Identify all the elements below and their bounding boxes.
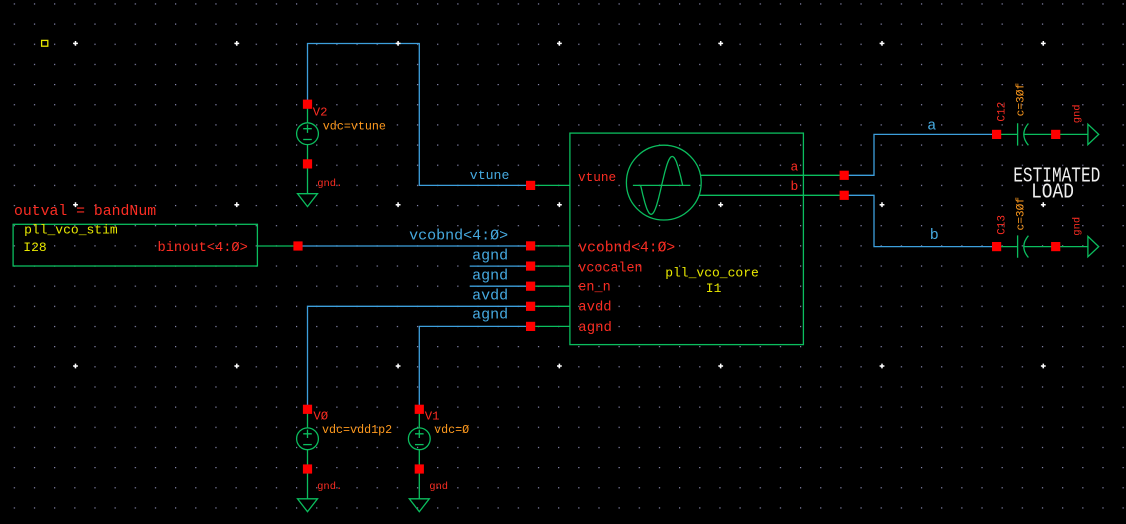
vco symbol circle with sine wave (I1): [626, 145, 701, 220]
pin stub a (I1): [701, 174, 840, 176]
svg-text:V1: V1: [425, 409, 440, 423]
svg-text:pll_vco_stim: pll_vco_stim: [24, 223, 118, 238]
capacitor C12: wiring and plates: [997, 123, 1088, 145]
pin square V2 plus: [303, 100, 312, 109]
ground symbol (C12 load): [1088, 124, 1099, 144]
svg-text:en_n: en_n: [578, 281, 610, 296]
svg-text:a: a: [927, 117, 936, 134]
wire net agnd stub (en_n pin): [470, 285, 531, 287]
instance pll_vco_stim I28: body: [13, 224, 293, 266]
wire net b (core to C13): [844, 195, 996, 246]
capacitor C13: wiring and plates: [997, 235, 1088, 257]
pin stub vcobnd<4:0> (I1): [535, 245, 570, 247]
pin square agnd (I1): [526, 322, 535, 331]
ground symbol (V0): [298, 499, 318, 512]
ground symbol (V2): [298, 194, 318, 207]
wire net agnd (V1 to core): [419, 326, 530, 409]
pin stub vtune (I1): [535, 184, 570, 186]
pin stub b (I1): [699, 194, 840, 196]
svg-text:agnd: agnd: [472, 248, 508, 265]
pin stub avdd (I1): [535, 305, 570, 307]
svg-text:vtune: vtune: [470, 168, 510, 183]
svg-text:gnd: gnd: [429, 481, 448, 493]
wire net vcobnd<4:0> (stim to core): [298, 245, 531, 247]
svg-text:gnd.: gnd.: [317, 178, 342, 190]
pin square vcobnd<4:0> (I1): [526, 241, 535, 250]
svg-text:vdc=vdd1p2: vdc=vdd1p2: [322, 423, 392, 437]
voltage source V2: circle symbol: [297, 123, 319, 145]
svg-text:agnd: agnd: [472, 268, 508, 285]
svg-text:vdc=Ø: vdc=Ø: [434, 423, 469, 437]
pin square C12 left: [992, 130, 1001, 139]
svg-text:gnd.: gnd.: [317, 481, 342, 493]
pin stub vcocalen (I1): [535, 265, 570, 267]
svg-text:avdd: avdd: [578, 299, 611, 315]
pin square V2 minus: [303, 159, 312, 168]
pin square avdd (I1): [526, 302, 535, 311]
svg-text:outval = bandNum: outval = bandNum: [14, 204, 156, 220]
pin square V0 minus: [303, 464, 312, 473]
ground symbol (V1): [409, 499, 429, 512]
wire net a (core to C12): [844, 134, 996, 175]
svg-text:binout<4:Ø>: binout<4:Ø>: [158, 241, 248, 256]
svg-text:C13: C13: [997, 215, 1009, 235]
svg-text:C12: C12: [997, 102, 1009, 122]
voltage source V1: circle symbol: [408, 428, 430, 450]
yellow origin marker square: [42, 40, 48, 46]
svg-text:gnd: gnd: [1071, 104, 1083, 123]
svg-text:pll_vco_core: pll_vco_core: [665, 266, 759, 281]
voltage source V1: body wire: [418, 409, 420, 499]
pin square en_n (I1): [526, 282, 535, 291]
voltage source V2: body wire: [307, 104, 309, 194]
pin stub agnd (I1): [535, 325, 570, 327]
svg-text:b: b: [791, 179, 799, 194]
svg-text:I1: I1: [706, 281, 722, 296]
svg-text:vcobnd<4:Ø>: vcobnd<4:Ø>: [409, 227, 508, 244]
voltage source V0: circle symbol: [297, 428, 319, 450]
svg-text:VØ: VØ: [313, 409, 328, 423]
pin square C12 right: [1051, 130, 1060, 139]
pin square V0 plus: [303, 405, 312, 414]
svg-text:b: b: [930, 227, 939, 244]
svg-text:vtune: vtune: [578, 170, 616, 185]
svg-text:agnd: agnd: [472, 307, 508, 324]
wire net avdd (V0 to core): [308, 306, 531, 409]
svg-text:agnd: agnd: [578, 320, 612, 336]
svg-text:I28: I28: [23, 240, 46, 255]
pin square V1 minus: [415, 464, 424, 473]
pin stub en_n (I1): [535, 285, 570, 287]
svg-text:avdd: avdd: [472, 287, 508, 304]
svg-text:a: a: [791, 159, 799, 174]
pin square a (I1): [840, 171, 849, 180]
pin square binout<4:0> (I28): [293, 241, 302, 250]
pin square C13 left: [992, 242, 1001, 251]
svg-text:gnd: gnd: [1071, 217, 1083, 236]
pin square V1 plus: [415, 405, 424, 414]
svg-text:vcobnd<4:Ø>: vcobnd<4:Ø>: [578, 241, 675, 257]
ground symbol (C13 load): [1088, 236, 1099, 256]
pin square b (I1): [840, 191, 849, 200]
svg-text:c=3Øf: c=3Øf: [1015, 197, 1027, 231]
svg-text:vcocalen: vcocalen: [578, 262, 642, 277]
svg-text:V2: V2: [313, 106, 328, 120]
voltage source V0: body wire: [307, 409, 309, 499]
svg-text:c=3Øf: c=3Øf: [1015, 83, 1027, 117]
svg-text:vdc=vtune: vdc=vtune: [323, 119, 386, 133]
pin square vcocalen (I1): [526, 262, 535, 271]
op-amp / vco core U1 (pll_vco_core I1): body rectangle: [570, 133, 804, 345]
wire net agnd stub (vcocalen pin): [470, 265, 531, 267]
wire net vtune (V2 to core): [308, 41, 531, 185]
pin square C13 right: [1051, 242, 1060, 251]
svg-text:LOAD: LOAD: [1031, 180, 1074, 204]
pin square vtune (I1): [526, 181, 535, 190]
